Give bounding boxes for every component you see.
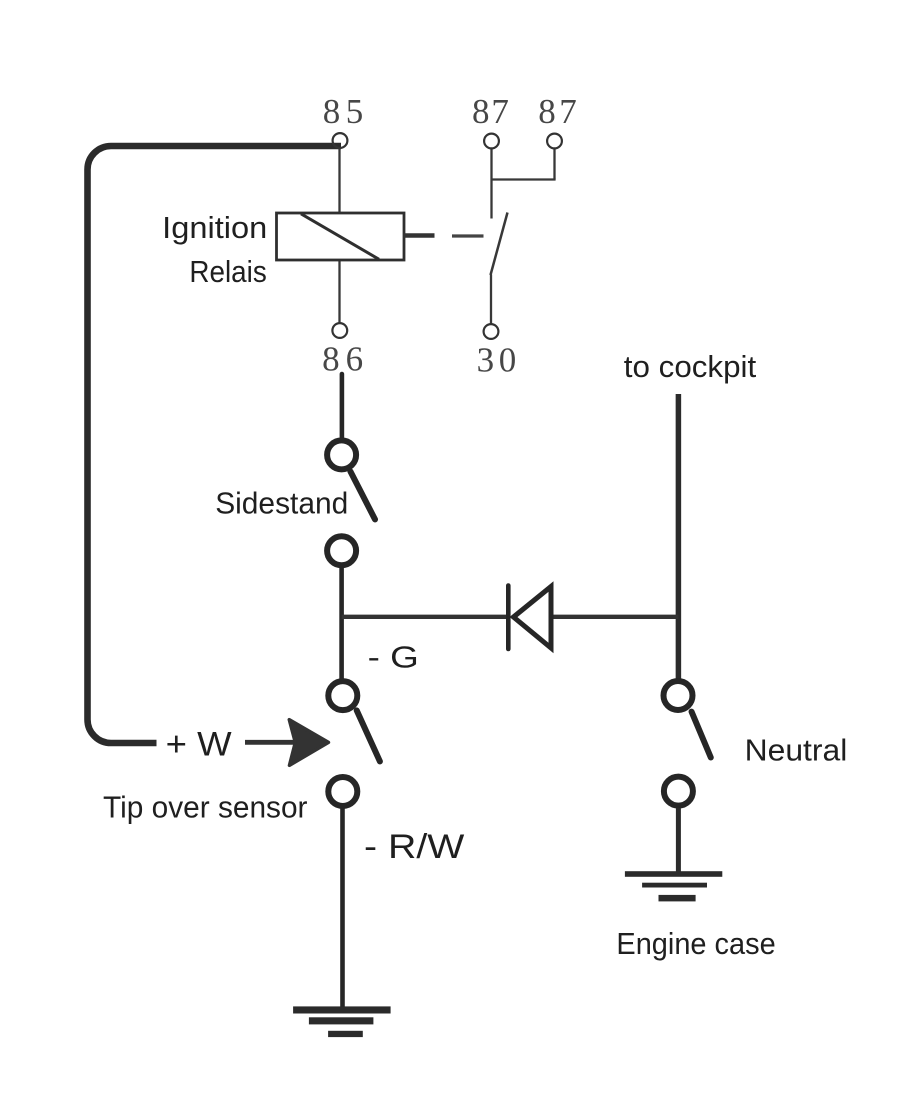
svg-text:- R/W: - R/W (364, 828, 464, 866)
diode D1 triangle (514, 587, 552, 649)
svg-text:- G: - G (368, 639, 419, 674)
wire: pin 87a down (490, 149, 492, 219)
svg-text:Tip over sensor: Tip over sensor (103, 790, 308, 825)
wire: to cockpit vertical down to neutral switch (676, 394, 682, 680)
relay coil box (Ignition Relais) (277, 213, 405, 260)
wire: 86 down to sidestand switch (340, 374, 345, 440)
pin 86 terminal (332, 323, 347, 338)
svg-text:Sidestand: Sidestand (215, 486, 348, 521)
tip-over sensor blade (357, 710, 380, 761)
ground (tip-over sensor) bar 3 (328, 1031, 363, 1037)
wire: diode branch horizontal left segment (342, 615, 508, 619)
wire: 87 junction horizontal (492, 178, 556, 180)
relay coil diagonal (301, 214, 379, 259)
wire: diode branch horizontal right segment (549, 615, 678, 619)
relay contact blade (491, 213, 508, 276)
sidestand switch blade (350, 471, 375, 519)
svg-text:to cockpit: to cockpit (624, 349, 757, 384)
svg-text:Engine case: Engine case (616, 926, 775, 961)
ground (engine case) bar 1 (625, 871, 722, 877)
neutral switch blade (692, 712, 711, 758)
wire: pin 85 to relay coil (338, 148, 340, 214)
neutral switch bottom contact (664, 777, 693, 806)
svg-text:Neutral: Neutral (745, 732, 848, 767)
pin 30 terminal (484, 324, 499, 339)
svg-text:87: 87 (472, 92, 509, 131)
pin 87a terminal (484, 134, 499, 149)
arrow head (289, 720, 328, 766)
wire: sidestand to tip-over sensor (through -G node) (339, 567, 344, 679)
diode D1 cathode bar (506, 586, 511, 650)
wire: neutral switch to engine case ground (676, 808, 681, 872)
tip-over sensor bottom contact (328, 777, 357, 806)
ground (engine case) bar 2 (642, 883, 707, 888)
relay actuator dash (452, 234, 484, 237)
wire: pin 87b down (553, 149, 555, 180)
pin 87b terminal (547, 134, 562, 149)
sidestand switch top contact (327, 440, 356, 469)
wire: blade to pin 30 (490, 275, 492, 325)
sidestand switch bottom contact (327, 536, 356, 565)
arrow shaft to tip-over sensor (245, 740, 294, 745)
svg-text:Relais: Relais (189, 254, 266, 289)
ground (tip-over sensor) bar 1 (293, 1006, 391, 1013)
ground (tip-over sensor) bar 2 (309, 1017, 374, 1024)
pin 85 terminal (333, 133, 348, 148)
wire: tip-over sensor to ground (340, 808, 345, 1008)
tip-over sensor top contact (328, 681, 357, 710)
wire: thick loop from relay pin 85 left and down to +W feed (87, 146, 341, 743)
wire: relay coil to pin 86 (338, 260, 340, 324)
svg-text:Ignition: Ignition (162, 210, 267, 245)
relay actuator stub (dashed link) (403, 233, 435, 238)
neutral switch top contact (664, 681, 693, 710)
ground (engine case) bar 3 (659, 895, 696, 902)
svg-text:+ W: + W (166, 726, 232, 764)
